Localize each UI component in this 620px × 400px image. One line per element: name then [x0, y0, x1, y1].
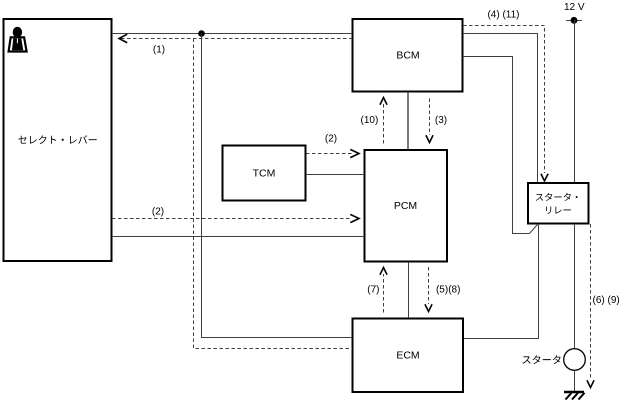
select lever box — [4, 19, 112, 261]
wire: PCM to ECM vertical solid — [408, 262, 410, 318]
wire (5)(8): dashed PCM to ECM down — [428, 267, 430, 304]
wire: TCM to PCM solid — [306, 174, 364, 176]
starter relay box — [528, 183, 589, 224]
starter label スタータ — [523, 355, 561, 364]
arrowhead (2) into PCM left — [351, 150, 359, 158]
wire: starter to ground — [574, 370, 576, 391]
svg-text:BCM: BCM — [396, 50, 419, 62]
wire: BCM to PCM vertical solid — [407, 92, 409, 150]
svg-text:12 V: 12 V — [564, 2, 585, 13]
wire (6)(9): dashed relay to ground — [590, 224, 592, 380]
wire: BCM to relay bottom solid with diagonal jog — [463, 57, 538, 234]
wire (2): dashed select lever to PCM — [112, 218, 352, 220]
select lever label セレクト・レバー — [18, 135, 96, 144]
arrowhead (1) left into select lever — [119, 35, 127, 43]
ECM box — [353, 319, 464, 393]
wire: relay bottom down to starter — [574, 224, 576, 349]
starter relay label line2 リレー — [546, 206, 571, 213]
arrowhead (6)(9) down — [587, 381, 593, 388]
svg-text:(1): (1) — [153, 44, 165, 55]
node junction dot — [198, 30, 205, 37]
PCM box — [365, 150, 448, 262]
svg-text:ECM: ECM — [396, 350, 419, 362]
svg-text:TCM: TCM — [253, 168, 276, 180]
svg-text:(4) (11): (4) (11) — [487, 10, 519, 21]
wire (4)(11): dashed BCM to starter relay — [463, 26, 545, 174]
svg-text:(6) (9): (6) (9) — [593, 295, 620, 306]
wire: BCM to relay top solid — [463, 34, 538, 183]
svg-text:(7): (7) — [367, 285, 379, 296]
wire: select lever to PCM solid — [112, 236, 364, 238]
node: 12V supply dot — [566, 20, 582, 22]
starter relay label line1 スタータ・ — [536, 193, 578, 201]
wire: relay bottom to ECM right solid — [464, 224, 539, 339]
arrowhead (3) down into PCM — [426, 136, 432, 143]
arrowhead (7) up into PCM — [380, 268, 386, 275]
wire (7): dashed ECM to PCM up — [383, 274, 385, 313]
svg-text:(2): (2) — [325, 134, 337, 145]
TCM box — [223, 146, 306, 201]
arrowhead (5)(8) down into ECM — [425, 305, 431, 312]
svg-text:(3): (3) — [435, 115, 447, 126]
BCM box — [353, 19, 463, 92]
svg-text:PCM: PCM — [394, 200, 417, 212]
svg-text:(10): (10) — [361, 115, 379, 126]
arrowhead (10) up into BCM — [380, 98, 386, 105]
wire (10): dashed PCM to BCM up — [383, 104, 385, 144]
ground symbol — [564, 392, 585, 400]
arrowhead (4)(11) down into relay top — [541, 175, 547, 182]
wire: 12V down to relay top — [574, 20, 576, 182]
svg-text:(5)(8): (5)(8) — [436, 285, 460, 296]
wire (1): dashed to select lever — [121, 38, 352, 40]
driver person icon — [9, 27, 27, 52]
wire: select lever to BCM (solid) — [112, 33, 352, 35]
starter motor circle — [564, 349, 586, 371]
wire (2): dashed TCM to PCM — [306, 153, 352, 155]
wire (3): dashed BCM to PCM down — [429, 99, 431, 136]
wire: dashed branch down to ECM left — [194, 39, 353, 349]
wire: junction down to ECM left (solid) — [202, 34, 353, 338]
arrowhead (2) into PCM left — [351, 215, 359, 223]
svg-text:(2): (2) — [152, 207, 164, 218]
